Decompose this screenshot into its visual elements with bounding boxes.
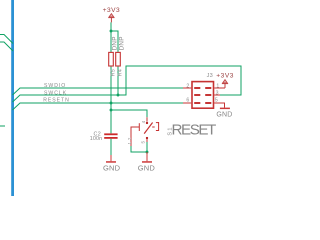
junction at +3V3 split — [110, 30, 113, 33]
wire branch to R4 top — [111, 31, 118, 95]
ground GND at J3 — [216, 108, 232, 119]
wire bus entry hook 1 — [0, 35, 13, 44]
pin 2 stub — [183, 87, 191, 89]
wire C2 bottom — [110, 139, 112, 155]
ground GND under C2 — [103, 155, 121, 173]
pin 6 stub — [183, 102, 191, 104]
svg-text:SWCLK: SWCLK — [44, 90, 67, 96]
junction under switch — [146, 151, 149, 154]
svg-text:+3V3: +3V3 — [216, 73, 234, 80]
wire stub left edge — [0, 125, 5, 127]
switch S1 side bracket — [131, 123, 139, 146]
pin 1 stub — [214, 87, 225, 89]
switch S1 top pin — [146, 117, 148, 122]
svg-text:2: 2 — [127, 137, 132, 140]
svg-text:R5: R5 — [111, 69, 117, 76]
svg-text:GND: GND — [103, 164, 121, 173]
connector J3 box — [192, 82, 214, 109]
svg-text:J3: J3 — [207, 73, 213, 79]
svg-text:GND: GND — [138, 164, 156, 173]
switch S1 actuator — [152, 122, 158, 131]
svg-text:SWDIO: SWDIO — [44, 83, 66, 89]
svg-text:4: 4 — [141, 120, 146, 123]
svg-text:GND: GND — [216, 112, 232, 119]
bus B1 — [11, 0, 14, 196]
wire L from bracket to switch bottom junction — [131, 146, 147, 152]
switch S1 bottom contact — [146, 137, 148, 139]
svg-text:DNP: DNP — [112, 36, 119, 50]
power +3V3 at J3 arrow — [222, 80, 228, 88]
wire switch bottom to junction — [146, 142, 148, 152]
junction R4 on SWCLK — [117, 94, 120, 97]
junction at reset branch — [110, 109, 113, 112]
svg-text:RESET: RESET — [172, 122, 217, 139]
wire RESETN — [13, 103, 184, 110]
wire reset branch to switch — [111, 110, 147, 117]
wire net from +3V3 down through RESETN to C2 — [110, 22, 112, 133]
junction on RESETN — [110, 102, 113, 105]
wire SWDIO — [13, 88, 184, 95]
svg-text:5: 5 — [215, 98, 218, 104]
svg-text:5: 5 — [141, 141, 146, 144]
switch S1 bottom pin — [146, 139, 148, 142]
wire bus entry hook 2 — [0, 42, 13, 51]
svg-text:6: 6 — [186, 98, 189, 104]
pin 5 stub to GND — [214, 103, 224, 108]
svg-text:RESETN: RESETN — [43, 98, 70, 104]
switch S1 top contact — [146, 122, 148, 124]
svg-text:DNP: DNP — [119, 36, 126, 50]
svg-text:R4: R4 — [117, 69, 123, 76]
switch S1 blade — [144, 123, 152, 134]
capacitor C2 plates — [104, 133, 117, 135]
connector J3 pin bars — [194, 87, 211, 104]
svg-text:1: 1 — [127, 142, 132, 145]
svg-text:3: 3 — [216, 91, 219, 97]
pin 3 stub — [214, 94, 220, 96]
svg-text:100n: 100n — [90, 136, 102, 142]
wire SWCLK — [13, 66, 242, 102]
resistor R4 body — [116, 52, 121, 66]
resistor R5 body — [109, 52, 114, 66]
power +3V3 top arrow symbol — [108, 14, 114, 23]
ground GND under switch — [138, 152, 156, 173]
svg-text:1: 1 — [216, 84, 219, 90]
svg-text:2: 2 — [186, 83, 189, 89]
